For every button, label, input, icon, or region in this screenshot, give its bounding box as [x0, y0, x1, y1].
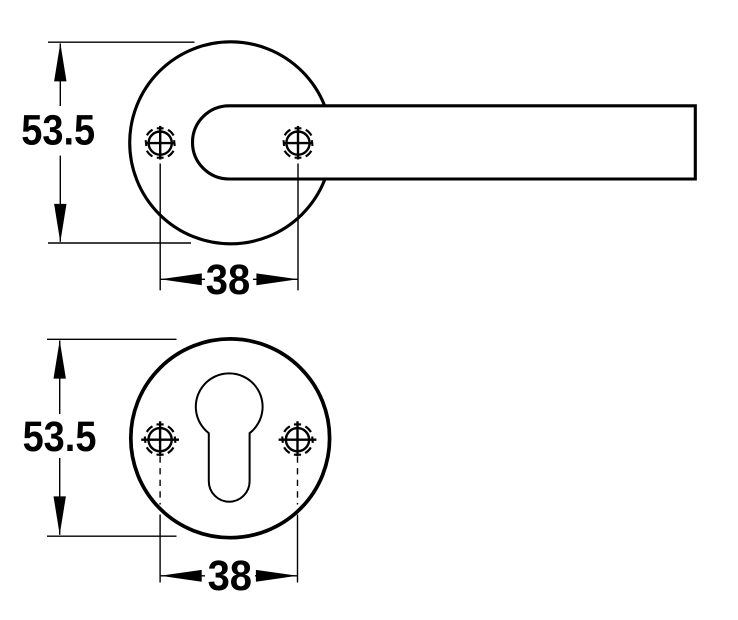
- lever handle bar: [193, 106, 696, 179]
- vertical dimension line 53.5: [59, 44, 61, 107]
- arrow left: [160, 273, 202, 285]
- horizontal dimension line 38: [160, 278, 205, 280]
- svg-text:38: 38: [206, 256, 250, 303]
- leader left: [159, 164, 161, 291]
- svg-text:53.5: 53.5: [21, 107, 95, 154]
- arrow down: [54, 496, 66, 534]
- arrow down: [54, 204, 66, 242]
- rose circle: [130, 42, 332, 244]
- escutcheon circle: [131, 339, 330, 538]
- leader right: [297, 164, 299, 291]
- screw hole right: [279, 421, 317, 456]
- leader left solid: [159, 515, 161, 583]
- arrow up: [54, 340, 66, 378]
- arrow right: [256, 273, 298, 285]
- euro profile keyhole: [196, 373, 263, 501]
- svg-text:38: 38: [208, 552, 252, 599]
- screw hole left: [141, 421, 179, 456]
- leader right dashed: [297, 457, 299, 505]
- horizontal dimension line 38: [160, 575, 205, 577]
- arrow left: [160, 570, 202, 582]
- bottom extension line: [48, 242, 191, 244]
- leader left dashed: [159, 457, 161, 505]
- top extension line: [47, 338, 177, 340]
- bottom extension line: [47, 535, 177, 537]
- arrow up: [54, 43, 66, 81]
- leader right solid: [297, 515, 299, 583]
- top extension line: [48, 41, 195, 43]
- screw hole left: [145, 126, 176, 160]
- svg-text:53.5: 53.5: [23, 413, 97, 460]
- vertical dimension line 53.5: [59, 341, 61, 415]
- arrow right: [256, 570, 298, 582]
- screw hole right: [283, 126, 314, 160]
